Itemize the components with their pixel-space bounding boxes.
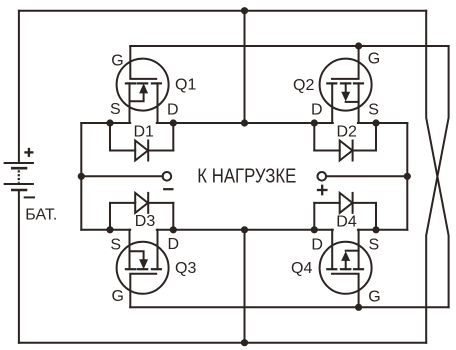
svg-text:D: D	[311, 101, 323, 118]
terminal circle minus	[163, 172, 172, 181]
svg-text:К НАГРУЗКЕ: К НАГРУЗКЕ	[197, 165, 296, 188]
wire lower rail left segment (Q3 source to left bus)	[81, 229, 130, 231]
node D2 anode upper rail	[311, 119, 318, 126]
node gate rail bottom Q4	[355, 304, 362, 311]
node gate rail top Q2	[355, 42, 362, 49]
transistor Q1 body arrow	[130, 83, 149, 101]
minus sign at load terminal	[164, 188, 172, 190]
node D3 anode lower rail	[106, 226, 113, 233]
transistor Q4 channel bars	[327, 268, 363, 270]
svg-text:S: S	[110, 101, 121, 118]
svg-text:Q3: Q3	[175, 260, 196, 277]
wire load line left	[81, 175, 162, 177]
wire upper rail middle segment (Q1 drain to Q2 drain)	[157, 122, 333, 124]
transistor Q1 gate lead	[130, 46, 156, 79]
transistor Q2 source leg	[358, 83, 360, 123]
node D1 anode upper rail	[106, 119, 113, 126]
node D1 cathode upper rail	[170, 119, 177, 126]
transistor Q4 gate lead	[332, 274, 359, 308]
transistor Q1 channel bars	[126, 82, 161, 84]
transistor Q1 drain leg	[157, 83, 159, 123]
svg-text:D: D	[311, 236, 323, 253]
svg-text:G: G	[368, 289, 380, 306]
wire lower rail right segment (Q4 source to right bus)	[358, 229, 407, 231]
transistor Q4 circle	[320, 242, 372, 294]
transistor Q2 channel bars	[327, 82, 363, 84]
svg-text:D1: D1	[134, 123, 155, 140]
diode D3	[110, 193, 173, 230]
svg-text:БАТ.: БАТ.	[25, 207, 57, 224]
transistor Q2 drain leg	[331, 83, 333, 123]
terminal circle plus	[318, 172, 327, 181]
svg-text:G: G	[112, 288, 124, 305]
wire center drop top (battery+ to upper drain rail)	[244, 11, 246, 123]
battery BAT plate - short thick	[12, 167, 26, 170]
svg-text:D2: D2	[337, 123, 358, 140]
svg-text:S: S	[110, 236, 121, 253]
svg-text:D: D	[168, 236, 180, 253]
svg-text:Q1: Q1	[175, 77, 196, 94]
transistor Q1 circle	[117, 59, 169, 111]
svg-text:G: G	[368, 51, 380, 68]
battery BAT plate + long	[5, 162, 33, 164]
wire center drop bottom (lower drain rail to battery-)	[244, 230, 246, 343]
wire gate rail bottom (Q3 Q4 gates)	[130, 306, 448, 308]
node center lower rail	[241, 226, 248, 233]
wire top border (battery + rail)	[19, 10, 426, 12]
svg-text:G: G	[111, 52, 123, 69]
diode D1	[110, 123, 173, 161]
node battery+ top	[241, 7, 248, 14]
transistor Q2 gate lead	[332, 46, 359, 79]
node D4 cathode lower rail	[372, 226, 379, 233]
diode D2	[314, 123, 376, 161]
transistor Q2 circle	[320, 59, 372, 111]
transistor Q4 drain leg	[331, 230, 333, 269]
node D4 anode lower rail	[311, 226, 318, 233]
wire bottom border (battery - rail)	[19, 342, 426, 344]
battery minus sign	[25, 196, 34, 198]
transistor Q3 source leg	[129, 230, 131, 269]
diode D4	[314, 193, 376, 230]
wire crossover left line (battery+ to lower gate rail)	[426, 11, 448, 308]
svg-text:D: D	[167, 101, 179, 118]
battery BAT plate + long (second cell)	[5, 183, 33, 185]
node right bus load tap	[404, 173, 411, 180]
wire lower rail middle segment (Q3 drain to Q4 drain)	[157, 229, 333, 231]
wire left border upper (battery + lead)	[18, 11, 20, 163]
svg-text:S: S	[369, 236, 380, 253]
svg-text:Q4: Q4	[291, 260, 312, 277]
battery plus sign	[26, 149, 33, 156]
transistor Q3 circle	[117, 242, 169, 294]
svg-text:D4: D4	[336, 214, 357, 231]
transistor Q3 gate lead	[130, 274, 156, 308]
plus sign at load terminal	[318, 186, 326, 194]
battery BAT plate - short thick (second cell)	[12, 189, 26, 192]
node center upper rail	[241, 119, 248, 126]
wire upper rail right segment (Q2 source to right bus)	[358, 122, 407, 124]
wire left border lower (battery - lead)	[18, 190, 20, 343]
wire crossover right line (upper gate rail to battery-)	[426, 46, 448, 343]
transistor Q2 body arrow	[341, 83, 358, 102]
wire load line right	[326, 175, 407, 177]
node D3 cathode lower rail	[170, 226, 177, 233]
transistor Q4 source leg	[358, 230, 360, 269]
transistor Q1 source leg	[129, 83, 131, 123]
node left bus load tap	[78, 173, 85, 180]
svg-text:Q2: Q2	[293, 77, 314, 94]
battery BAT dotted middle cells	[18, 170, 20, 183]
transistor Q4 body arrow	[341, 251, 358, 270]
svg-text:S: S	[368, 101, 379, 118]
node battery- bottom	[241, 339, 248, 346]
wire right bus (sources Q2 Q4 to plus terminal)	[406, 123, 408, 230]
node D2 cathode upper rail	[372, 119, 379, 126]
transistor Q3 body arrow	[130, 251, 149, 269]
wire left bus (sources Q1 Q3 to minus terminal)	[80, 123, 82, 230]
wire gate rail top (Q1 Q2 gates)	[130, 45, 448, 47]
svg-text:D3: D3	[135, 213, 156, 230]
transistor Q3 drain leg	[157, 230, 159, 269]
wire upper rail left segment (Q1 source to left bus)	[81, 122, 130, 124]
transistor Q3 channel bars	[126, 268, 161, 270]
